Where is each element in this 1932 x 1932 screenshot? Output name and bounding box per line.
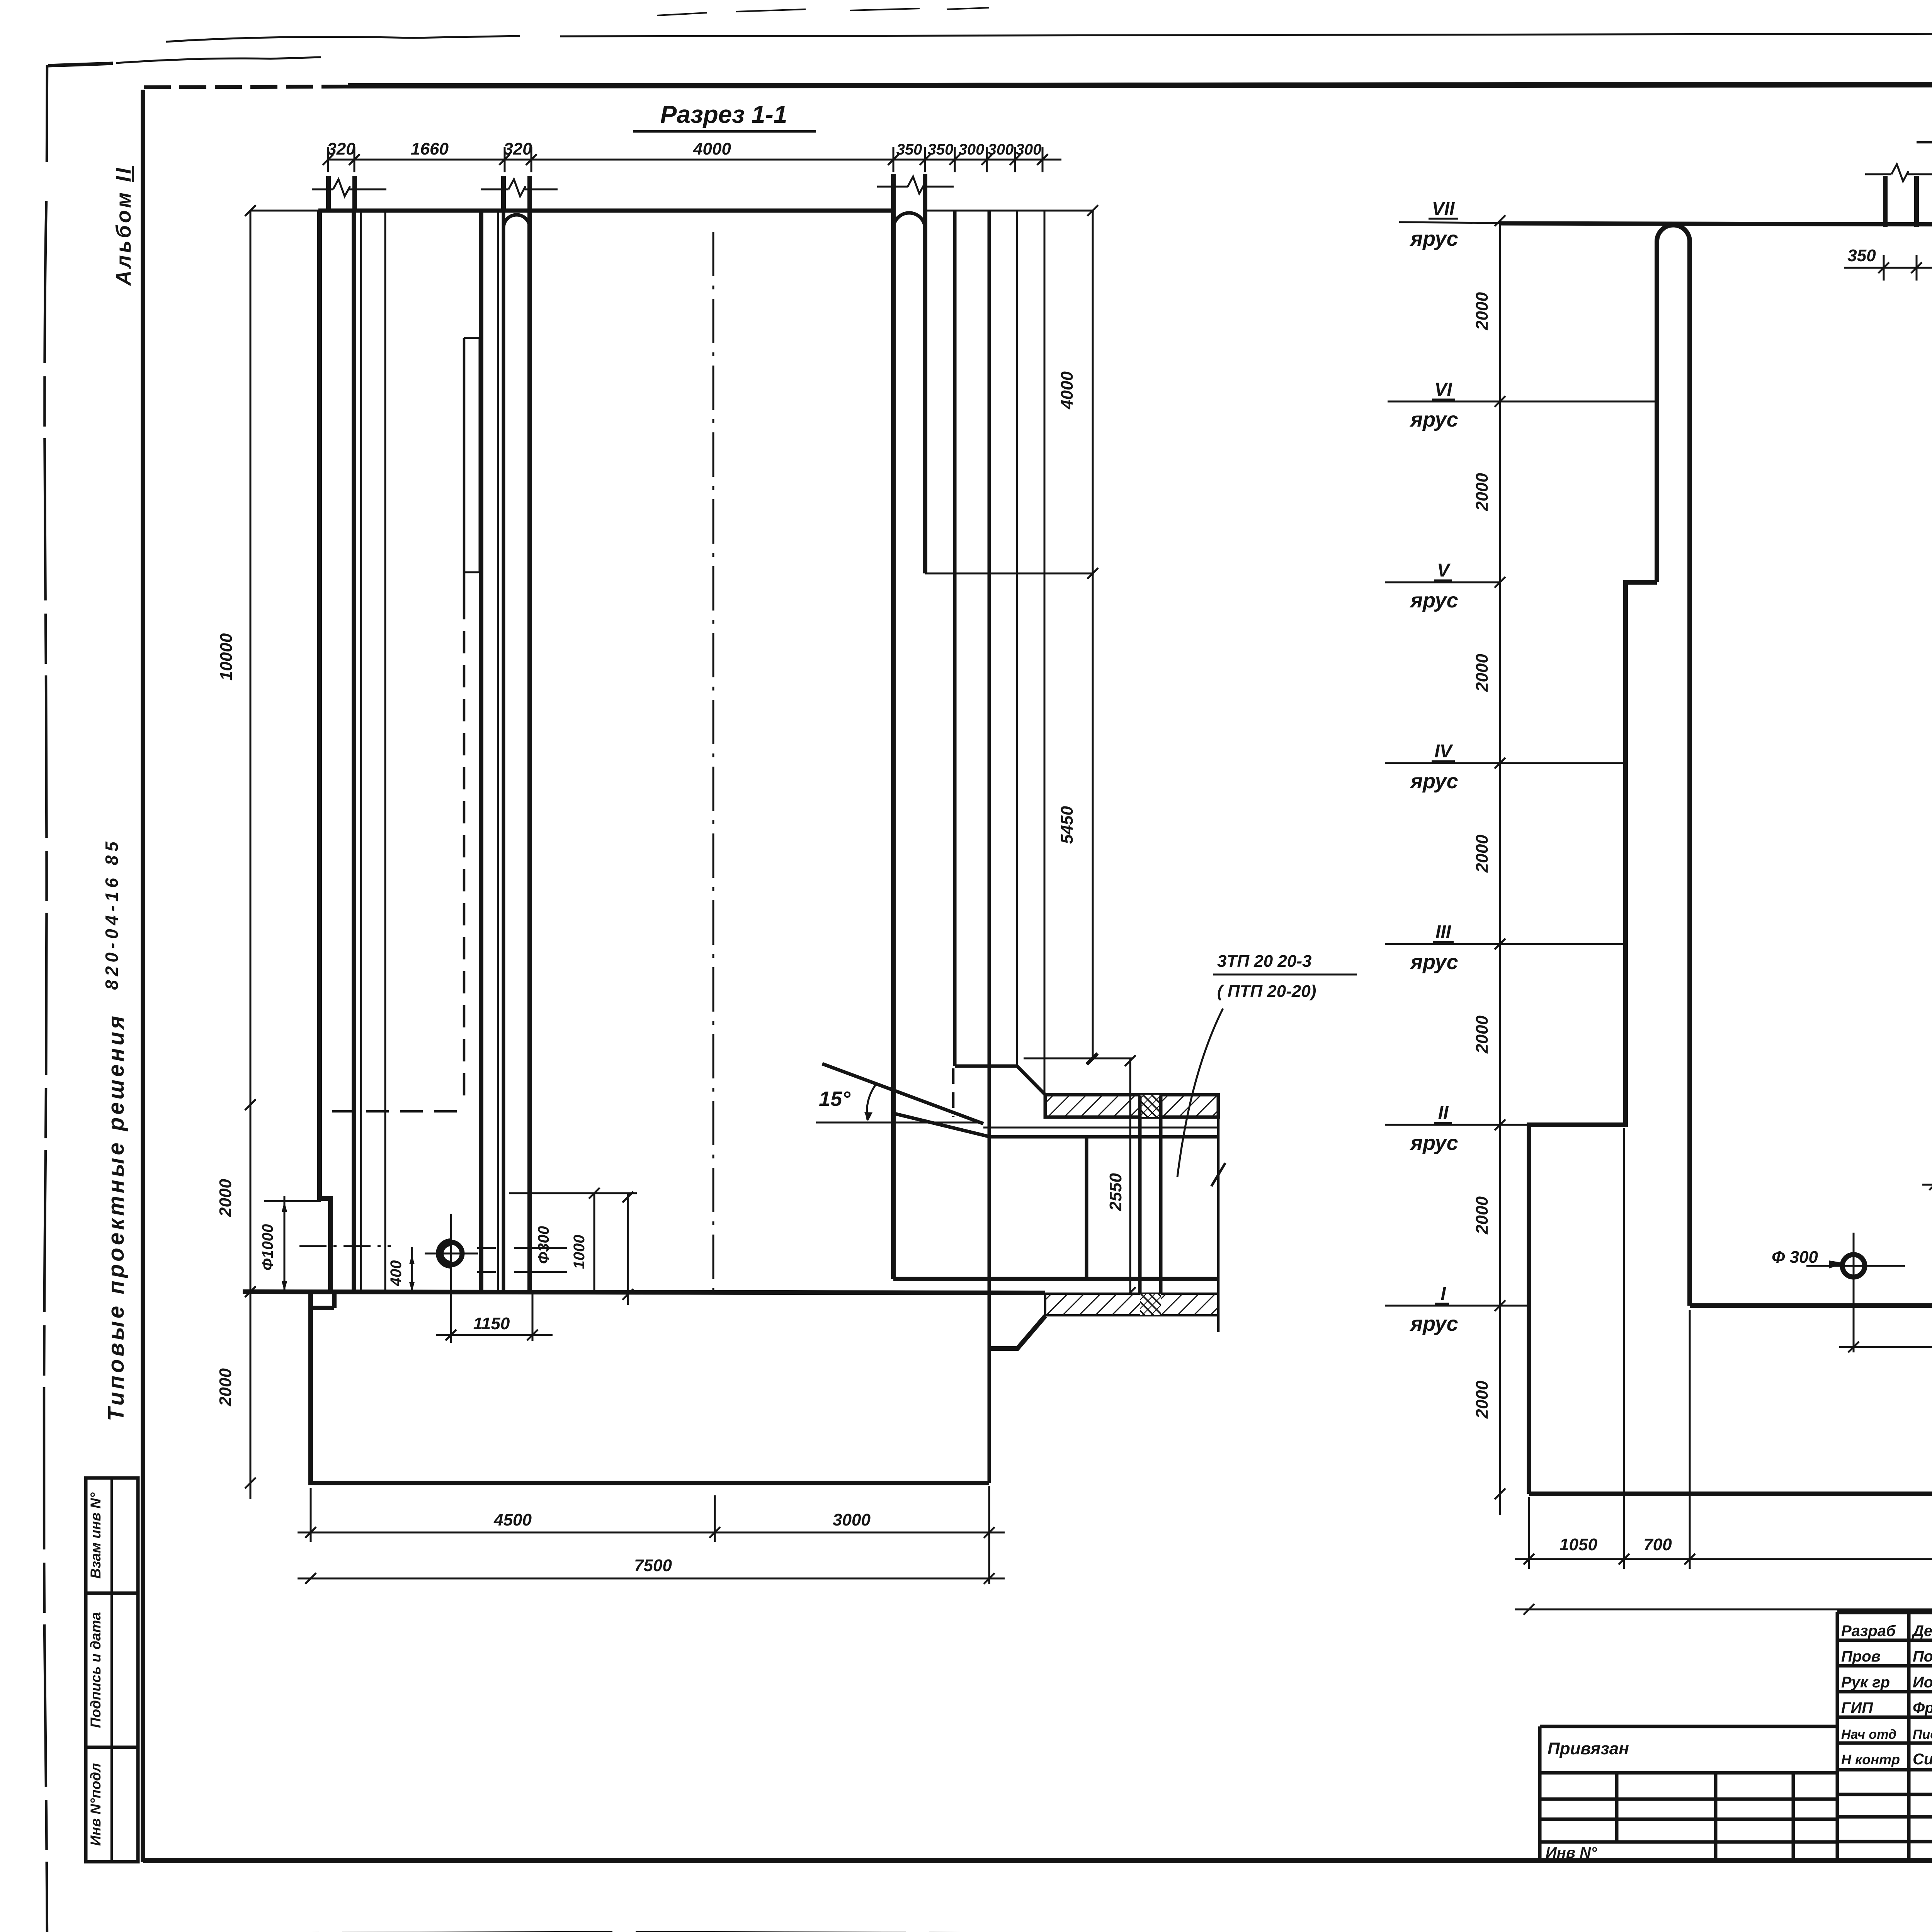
bell mouth cap of middle pipe	[503, 215, 530, 255]
svg-text:15°: 15°	[819, 1087, 850, 1111]
svg-text:4000: 4000	[1058, 371, 1077, 410]
svg-text:1000: 1000	[571, 1235, 588, 1269]
svg-text:ярус: ярус	[1409, 951, 1458, 974]
level lines	[1388, 401, 1657, 403]
personnel table grid	[1837, 1612, 1932, 1862]
svg-text:VI: VI	[1434, 379, 1452, 400]
svg-text:Ф300: Ф300	[535, 1226, 552, 1264]
svg-text:10000: 10000	[217, 633, 236, 680]
svg-text:2000: 2000	[216, 1368, 235, 1406]
svg-text:3000: 3000	[833, 1510, 871, 1529]
svg-text:700: 700	[1643, 1535, 1672, 1554]
bottom extension lines	[1529, 1128, 1932, 1569]
svg-text:2000: 2000	[1473, 292, 1492, 330]
svg-text:( ПТП 20-20): ( ПТП 20-20)	[1217, 982, 1316, 1001]
vertical riser walls	[1138, 1095, 1142, 1315]
svg-text:Разрез 1-1: Разрез 1-1	[660, 100, 787, 128]
shaft floor line	[243, 1292, 1045, 1293]
svg-text:2000: 2000	[1473, 1381, 1492, 1419]
dims phi300 / 1000 right of pipe	[509, 1192, 637, 1194]
svg-text:ГИП: ГИП	[1841, 1699, 1873, 1716]
phi300 drain circles	[1842, 1255, 1865, 1277]
svg-text:5450: 5450	[1058, 806, 1077, 844]
funnel transition of outlet	[955, 1065, 1017, 1068]
svg-text:Типовые проектные решения: Типовые проектные решения	[104, 1013, 129, 1421]
svg-text:320: 320	[327, 139, 355, 158]
svg-text:Потапенко: Потапенко	[1913, 1648, 1932, 1665]
pipe inner bottom line	[893, 1277, 1218, 1281]
top dimension line	[328, 159, 1061, 161]
hidden dashed contour	[463, 338, 466, 597]
svg-text:Пров: Пров	[1841, 1648, 1881, 1665]
dim 1150	[450, 1265, 452, 1341]
svg-text:2000: 2000	[1473, 1015, 1492, 1054]
svg-text:1150: 1150	[473, 1314, 510, 1333]
svg-text:Взам инв N°: Взам инв N°	[88, 1492, 104, 1578]
svg-text:I: I	[1440, 1284, 1446, 1304]
svg-text:3ТП 20 20-3: 3ТП 20 20-3	[1217, 952, 1311, 971]
left shaft wall profile	[1657, 225, 1690, 1306]
svg-text:7500: 7500	[634, 1556, 672, 1575]
svg-text:Писнячевский: Писнячевский	[1913, 1727, 1932, 1742]
svg-text:ярус: ярус	[1409, 589, 1458, 612]
pipe right end with breaks	[1211, 1095, 1225, 1332]
bottom dim line 1050/700/700/1050	[1515, 1558, 1932, 1560]
svg-text:Ф 300: Ф 300	[1772, 1248, 1818, 1267]
title block outer top line	[1837, 1610, 1932, 1614]
shaft floor	[1690, 1303, 1932, 1308]
svg-text:2000: 2000	[216, 1179, 235, 1217]
step at elevation 4000	[925, 573, 1094, 575]
svg-text:ярус: ярус	[1409, 227, 1458, 250]
top stub walls	[1885, 162, 1932, 227]
wall stubs above ground	[328, 174, 925, 211]
lower pipe wall hatched	[1045, 1294, 1218, 1315]
svg-text:Сильченко: Сильченко	[1913, 1751, 1932, 1768]
svg-text:Альбом II: Альбом II	[112, 166, 135, 286]
svg-text:320: 320	[503, 139, 532, 158]
15 degree arc with arrow	[867, 1083, 877, 1120]
right wall pair	[891, 211, 896, 1279]
privyazan table	[1540, 1726, 1837, 1862]
svg-text:2000: 2000	[1473, 473, 1492, 511]
15 degree sloping pipe lines	[822, 1064, 983, 1124]
svg-text:ярус: ярус	[1409, 770, 1458, 793]
svg-text:ярус: ярус	[1409, 1312, 1458, 1335]
pipe inner lower line	[990, 1135, 1218, 1139]
dim 400	[411, 1247, 413, 1294]
svg-text:Инв N°подл: Инв N°подл	[88, 1763, 104, 1846]
svg-text:III: III	[1435, 922, 1452, 942]
bottom torn edge	[48, 1932, 1932, 1932]
frame top heavy line	[144, 87, 350, 87]
wall break marks above ground	[312, 177, 954, 196]
svg-text:Рук гр: Рук гр	[1841, 1674, 1890, 1691]
bottom dim line 4500/3000	[310, 1488, 312, 1542]
svg-text:VII: VII	[1432, 199, 1455, 219]
svg-text:400: 400	[388, 1260, 405, 1287]
upper pipe wall hatched	[1045, 1095, 1218, 1117]
left wall outer line	[320, 211, 330, 1292]
middle wall lines	[479, 211, 483, 1292]
svg-text:350: 350	[928, 141, 954, 158]
bottom-left stamp column table	[86, 1478, 138, 1862]
svg-text:4500: 4500	[493, 1510, 532, 1529]
dim 2550 connector and line	[1024, 1058, 1132, 1060]
svg-text:V: V	[1437, 560, 1451, 581]
left dimension line	[1499, 221, 1501, 1515]
svg-text:Франк: Франк	[1913, 1699, 1932, 1716]
ground top line	[318, 209, 895, 213]
svg-text:IV: IV	[1434, 741, 1453, 762]
top dim line 350/1500/350	[1844, 267, 1932, 269]
svg-text:300: 300	[1016, 141, 1042, 158]
hole center line at left wall	[299, 1245, 391, 1247]
svg-text:4000: 4000	[693, 139, 731, 158]
svg-text:300: 300	[988, 141, 1014, 158]
sheet torn top edge	[48, 63, 113, 66]
svg-text:ярус: ярус	[1409, 408, 1458, 431]
svg-text:ярус: ярус	[1409, 1131, 1458, 1155]
right vertical dimension line 4000/5450	[1092, 211, 1094, 1060]
sheet top edge thin line	[560, 32, 1932, 36]
right thin wall lines	[953, 211, 957, 1066]
left overall dimension line	[250, 211, 252, 1499]
svg-text:1050: 1050	[1560, 1535, 1597, 1554]
svg-text:1660: 1660	[411, 139, 449, 158]
svg-text:2000: 2000	[1473, 654, 1492, 692]
dim phi1000 left	[284, 1196, 286, 1292]
dim 2800 under floor	[1839, 1346, 1932, 1348]
svg-text:Н контр: Н контр	[1841, 1752, 1900, 1767]
phi300 outlet circle	[440, 1242, 462, 1265]
bottom dim line 10000	[1515, 1609, 1932, 1611]
outlet structure chamfer	[989, 1316, 1045, 1349]
svg-text:II: II	[1438, 1103, 1449, 1123]
svg-text:350: 350	[1847, 246, 1876, 265]
svg-text:Разраб: Разраб	[1841, 1622, 1896, 1639]
svg-text:Привязан: Привязан	[1548, 1739, 1629, 1758]
axis center line of shaft	[713, 232, 714, 1294]
ground line	[1501, 223, 1932, 226]
left wall lines	[352, 211, 356, 1292]
svg-text:Иоффе: Иоффе	[1913, 1674, 1932, 1691]
frame bottom heavy line	[143, 1858, 1932, 1863]
svg-text:2000: 2000	[1473, 1196, 1492, 1235]
svg-text:Ф1000: Ф1000	[259, 1224, 276, 1270]
foundation outline	[311, 1292, 989, 1483]
foundation bottom	[1529, 1492, 1932, 1496]
frame left vertical	[141, 90, 145, 1862]
left torn edge	[44, 65, 47, 1932]
svg-text:300: 300	[959, 141, 985, 158]
svg-text:Подпись и дата: Подпись и дата	[88, 1612, 104, 1728]
svg-text:350: 350	[896, 141, 922, 158]
svg-text:820-04-16 85: 820-04-16 85	[102, 838, 122, 990]
svg-text:Нач отд: Нач отд	[1841, 1727, 1896, 1742]
bottom dim line 7500	[298, 1578, 1005, 1580]
svg-text:Девяшин: Девяшин	[1912, 1622, 1932, 1639]
tier labels	[1409, 199, 1458, 1335]
svg-text:2550: 2550	[1106, 1173, 1125, 1211]
personnel rows text	[1841, 1622, 1932, 1768]
svg-text:2000: 2000	[1473, 835, 1492, 873]
svg-text:Инв N°: Инв N°	[1546, 1844, 1597, 1861]
